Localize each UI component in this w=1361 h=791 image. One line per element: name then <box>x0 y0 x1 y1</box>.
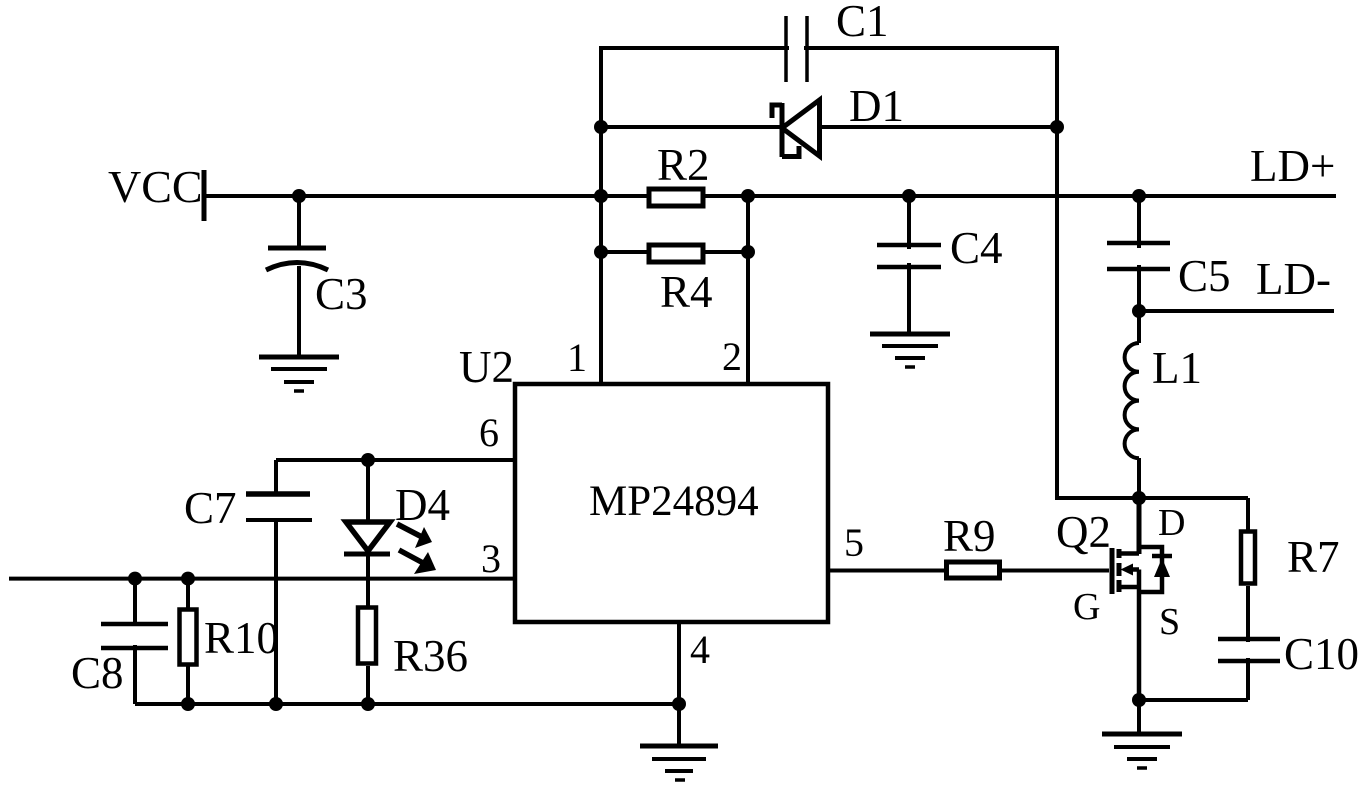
node junction C8 top <box>128 572 142 586</box>
VCC terminal bar <box>202 170 207 221</box>
ground for Q2 source <box>1102 734 1182 768</box>
node junction R10 top <box>181 572 195 586</box>
inductor L1 <box>1125 311 1139 500</box>
wire bottom rail <box>135 702 679 706</box>
ground for U2 pin4 <box>640 746 718 780</box>
diode D1 (schottky) <box>772 100 820 157</box>
wire LD- output <box>1139 309 1334 313</box>
resistor R10 <box>180 579 197 704</box>
wire pin5 from U2 to R9 <box>828 569 944 573</box>
wire left vertical x=601 from top loop to U2 pin 1 <box>599 46 603 386</box>
node junction C3 top <box>292 189 306 203</box>
svg-text:MP24894: MP24894 <box>589 478 759 525</box>
svg-text:D1: D1 <box>849 81 904 131</box>
node junction pin4 rail <box>672 697 686 711</box>
node junction Q2 drain top <box>1132 491 1146 505</box>
svg-text:LD+: LD+ <box>1250 141 1335 191</box>
wire D1 row left segment <box>601 125 780 129</box>
svg-text:2: 2 <box>722 334 742 379</box>
resistor R7 branch wire top <box>1246 498 1250 530</box>
wire drain row horizontal <box>1057 496 1248 500</box>
svg-text:C1: C1 <box>836 0 889 46</box>
transistor Q2 (N-MOSFET with body diode) <box>1112 498 1172 700</box>
wire pin2 vertical x=748 <box>746 196 750 386</box>
svg-text:U2: U2 <box>459 342 514 392</box>
node junction rail x748 <box>741 189 755 203</box>
wire R4 row <box>601 250 748 254</box>
svg-text:C8: C8 <box>71 648 124 698</box>
node junction R4 right <box>741 245 755 259</box>
LED D4 emission arrows <box>397 524 436 574</box>
ground for C3 <box>259 357 339 391</box>
node junction rail x601 <box>594 189 608 203</box>
wire pin6 horizontal <box>276 458 515 462</box>
svg-text:1: 1 <box>567 335 587 380</box>
node junction LD- / L1 top <box>1132 304 1146 318</box>
resistor R36 <box>358 608 376 664</box>
svg-text:R36: R36 <box>393 631 468 681</box>
node junction Q2 source <box>1132 693 1146 707</box>
svg-text:C3: C3 <box>315 269 368 319</box>
resistor R2 <box>649 189 703 206</box>
wire pin4 vertical <box>677 622 681 747</box>
svg-text:C7: C7 <box>184 483 237 533</box>
wire R36 bottom <box>366 666 370 704</box>
wire top loop horizontal left of C1 <box>601 46 789 50</box>
wire R9 to Q2 gate <box>1002 569 1109 573</box>
resistor R4 <box>649 245 703 262</box>
wire pin3 horizontal <box>9 577 515 581</box>
node junction C4 top <box>902 189 916 203</box>
svg-text:D: D <box>1158 502 1185 544</box>
svg-text:R10: R10 <box>204 613 279 663</box>
svg-text:C5: C5 <box>1178 251 1231 301</box>
wire R7 to C10 <box>1246 586 1250 642</box>
svg-text:C4: C4 <box>950 223 1003 273</box>
resistor R9 <box>947 562 1000 578</box>
ground for C4 <box>870 334 950 367</box>
svg-text:R7: R7 <box>1287 532 1340 582</box>
svg-text:R2: R2 <box>657 140 710 190</box>
wire D1 row right segment <box>819 125 1057 129</box>
capacitor C10 <box>1218 639 1280 700</box>
svg-text:Q2: Q2 <box>1056 507 1111 557</box>
node junction C5 top <box>1132 189 1146 203</box>
wire right vertical x=1057 from top loop down to Q2 drain row <box>1055 46 1059 500</box>
resistor R7 <box>1241 532 1255 584</box>
IC U2 MP24894 <box>515 384 828 622</box>
capacitor C3 (polarized) <box>266 196 328 357</box>
svg-text:S: S <box>1159 601 1180 643</box>
svg-text:G: G <box>1073 586 1100 628</box>
svg-text:4: 4 <box>690 627 710 672</box>
svg-text:5: 5 <box>844 520 864 565</box>
svg-text:3: 3 <box>481 536 501 581</box>
capacitor C7 <box>246 460 312 704</box>
node junction R10 bottom <box>181 697 195 711</box>
capacitor C4 <box>877 196 941 335</box>
svg-text:C10: C10 <box>1284 629 1359 679</box>
wire C10 bottom to source node <box>1139 698 1248 702</box>
wire source to ground <box>1137 700 1141 735</box>
node junction D1 left <box>594 120 608 134</box>
svg-text:LD-: LD- <box>1256 254 1331 304</box>
capacitor C8 <box>101 579 168 704</box>
svg-text:VCC: VCC <box>108 161 203 212</box>
node junction D1 right <box>1050 120 1064 134</box>
node junction C7 bottom <box>269 697 283 711</box>
LED D4 <box>344 460 390 608</box>
wire VCC rail <box>205 194 1336 198</box>
svg-text:R4: R4 <box>660 267 713 317</box>
svg-text:L1: L1 <box>1152 343 1202 393</box>
node junction R36 bottom <box>361 697 375 711</box>
svg-text:6: 6 <box>479 410 499 455</box>
svg-text:R9: R9 <box>943 511 996 561</box>
svg-text:D4: D4 <box>395 480 450 530</box>
node junction R4 left <box>594 245 608 259</box>
capacitor C1 <box>786 16 807 82</box>
node junction D4 top <box>361 453 375 467</box>
capacitor C5 <box>1107 196 1170 311</box>
wire top loop horizontal right of C1 <box>804 46 1057 50</box>
